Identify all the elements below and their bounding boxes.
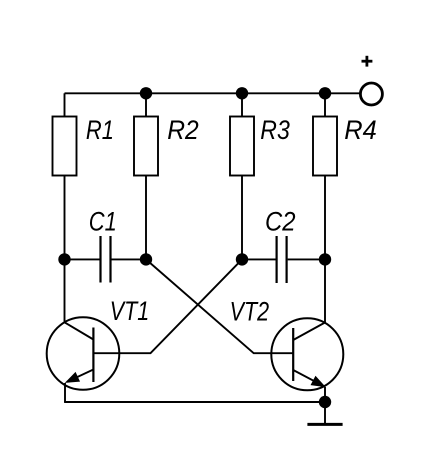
svg-text:C2: C2: [265, 206, 296, 236]
svg-text:VT1: VT1: [110, 296, 150, 326]
svg-text:R2: R2: [167, 115, 199, 145]
svg-text:R4: R4: [344, 115, 377, 145]
svg-text:C1: C1: [89, 206, 117, 236]
svg-text:VT2: VT2: [230, 296, 270, 326]
svg-text:R3: R3: [260, 115, 290, 145]
svg-text:R1: R1: [86, 115, 114, 145]
